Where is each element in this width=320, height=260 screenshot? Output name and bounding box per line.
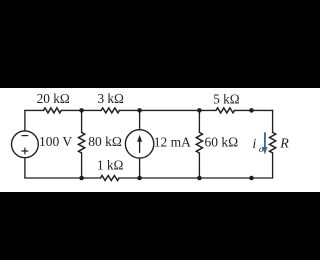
wire left branch below source [24, 158, 26, 178]
wire 60k branch lower [198, 153, 200, 178]
svg-text:80 kΩ: 80 kΩ [88, 134, 122, 149]
wire current source branch upper [139, 110, 141, 129]
node dot top right of 5k [249, 108, 254, 113]
current arrow i_o (blue) head [262, 147, 267, 155]
wire bottom rail right segment [119, 177, 273, 179]
node dot top at 60k branch [197, 108, 202, 113]
svg-text:5 kΩ: 5 kΩ [213, 91, 240, 106]
wire top rail between 20k and 3k [61, 109, 101, 111]
resistor 20 kOhm [44, 108, 62, 113]
node dot bottom at 80k branch [79, 176, 84, 181]
current arrow i_o (blue) shaft [264, 132, 266, 148]
node dot top at 80k branch [79, 108, 84, 113]
svg-text:R: R [279, 136, 289, 151]
svg-text:1 kΩ: 1 kΩ [97, 157, 124, 172]
node dot bottom at 60k branch [197, 176, 202, 181]
svg-text:i: i [252, 137, 256, 152]
current source I1 12 mA circle [125, 130, 153, 158]
resistor 3 kOhm [101, 108, 119, 113]
wire top rail right segment [235, 109, 273, 111]
svg-text:o: o [259, 145, 264, 155]
wire top rail between 3k and 5k [119, 109, 216, 111]
wire right branch upper [272, 110, 274, 132]
svg-text:12 mA: 12 mA [154, 135, 191, 150]
voltage source V1 100 V circle [12, 131, 39, 158]
wire top rail left segment [25, 109, 44, 111]
current source arrow shaft [139, 141, 141, 153]
white figure background [0, 88, 320, 192]
wire current source branch lower [139, 158, 141, 178]
wire left branch above source [24, 110, 26, 130]
resistor 1 kOhm [101, 176, 120, 181]
voltage source minus sign [22, 135, 29, 137]
node dot bottom at current source branch [137, 176, 142, 181]
svg-text:20 kΩ: 20 kΩ [37, 91, 70, 106]
svg-text:3 kΩ: 3 kΩ [97, 91, 124, 106]
wire right branch lower [272, 153, 274, 178]
wire 80k branch upper [81, 110, 83, 132]
resistor R [270, 132, 276, 153]
svg-text:100 V: 100 V [39, 134, 72, 149]
resistor 60 kOhm [196, 132, 202, 153]
svg-text:60 kΩ: 60 kΩ [205, 135, 239, 150]
wire 80k branch lower [81, 153, 83, 178]
current source arrow head [137, 135, 142, 142]
node dot bottom right [249, 176, 254, 181]
resistor 80 kOhm [79, 132, 85, 153]
node dot top at current source branch [137, 108, 142, 113]
resistor 5 kOhm [216, 108, 235, 113]
bottom letterbox bar [0, 192, 320, 260]
wire bottom rail left segment [25, 177, 101, 179]
voltage source plus sign [22, 148, 29, 155]
top letterbox bar [0, 0, 320, 88]
wire 60k branch upper [198, 110, 200, 132]
